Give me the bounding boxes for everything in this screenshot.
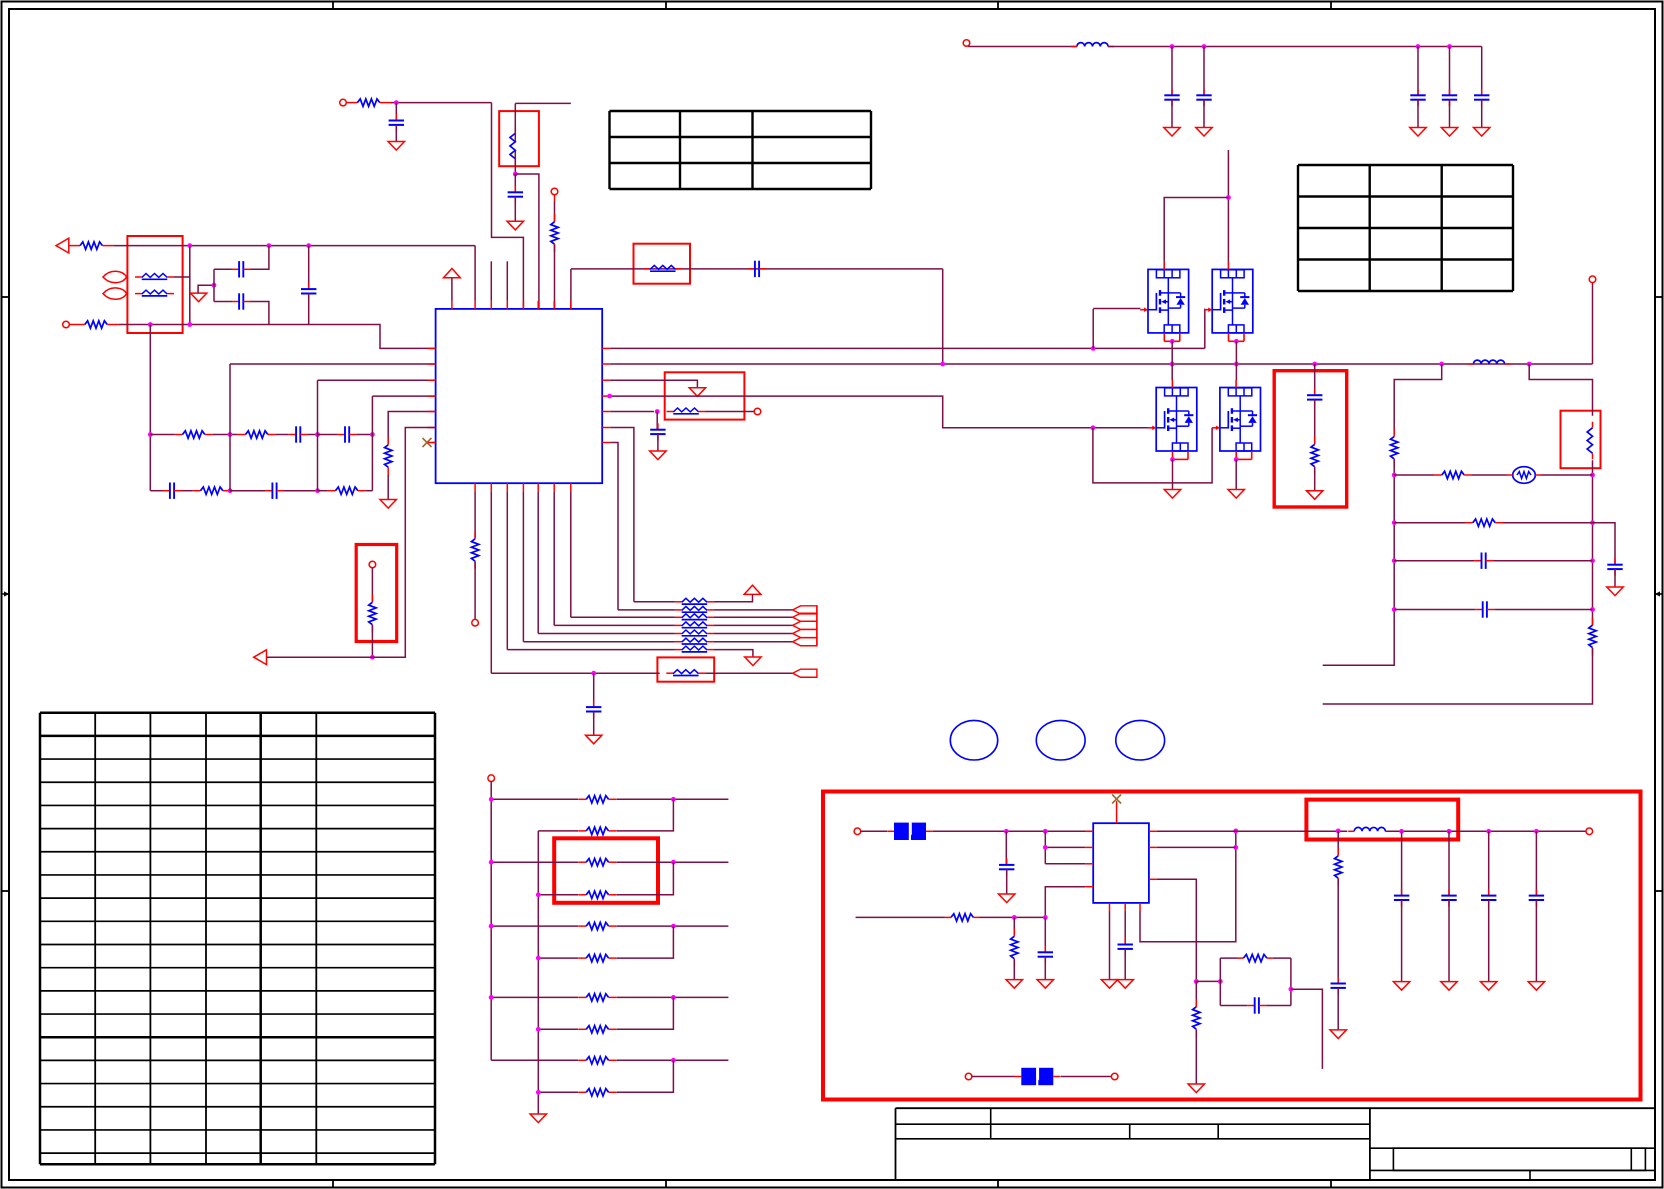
wire to C27: [1044, 917, 1046, 952]
wire C28 gnd: [1124, 949, 1126, 980]
junction: [671, 924, 676, 929]
resistor R22: [578, 859, 616, 866]
wire C27 gnd: [1044, 957, 1046, 980]
wire ladder row: [491, 1059, 578, 1061]
resistor R12: [1391, 429, 1398, 467]
wire mosfet feed left: [1164, 198, 1228, 262]
ground Q4: [1228, 490, 1244, 499]
junction: [940, 362, 945, 367]
wire out b: [1385, 830, 1586, 832]
junction: [489, 995, 494, 1000]
wire bead row: [538, 633, 675, 635]
IC U1 pin stubs: [428, 301, 611, 491]
wire net top: [114, 245, 475, 247]
wire R lead b: [980, 916, 1046, 918]
resistor R6: [328, 487, 366, 494]
resistor R13: [1434, 471, 1472, 478]
ferrite bead FB6: [675, 606, 714, 612]
junction: [1399, 829, 1404, 834]
title block: [896, 1108, 1656, 1180]
wire box5 c: [1314, 467, 1316, 491]
ferrite bead FB5: [675, 598, 714, 604]
wire row1 pwr: [714, 594, 753, 601]
capacitor C1: [232, 261, 251, 277]
junction: [1004, 829, 1009, 834]
wire pin538 down: [537, 491, 539, 633]
wire Q4 gnd: [1235, 459, 1237, 489]
wire ladder pair: [617, 1060, 674, 1092]
ground C11: [650, 451, 666, 460]
junction: [671, 860, 676, 865]
junction: [1312, 362, 1317, 367]
wire rowB a: [150, 490, 162, 492]
wire row475 c: [1541, 474, 1593, 476]
net tag row: [793, 629, 817, 637]
no-connect U2: [1112, 795, 1121, 804]
pin dcdc out: [1586, 828, 1593, 835]
wire to C9: [514, 174, 516, 192]
junction: [1534, 829, 1539, 834]
wire U2 gnd1: [1109, 911, 1111, 980]
wire cap mid: [213, 269, 215, 301]
junction: [1590, 558, 1595, 563]
capacitor C18: [1331, 977, 1346, 994]
resistor R2: [69, 321, 119, 328]
junction: [228, 488, 233, 493]
capacitor C12: [586, 701, 601, 718]
wire C2 to bottom: [251, 302, 269, 325]
highlight box top transformer: [499, 111, 539, 166]
wire bead1 to bottom: [174, 277, 190, 325]
junction: [1590, 473, 1595, 478]
wire pin554 down: [553, 491, 555, 625]
wire net bottom to IC: [119, 325, 436, 349]
wire fuse lead a: [861, 830, 888, 832]
wire pin491 stub: [490, 261, 492, 301]
wire ladder pair: [617, 997, 674, 1029]
net tag rail: [816, 605, 818, 646]
wire bead row: [571, 616, 675, 618]
resistor R30: [945, 914, 980, 921]
net tag row: [793, 606, 817, 614]
wire gate1 up: [1092, 309, 1094, 349]
ground U2a: [1101, 980, 1117, 989]
pin dcdc in: [854, 828, 861, 835]
wire ladder pair: [617, 926, 674, 958]
junction: [1233, 829, 1238, 834]
capacitor C11: [650, 423, 665, 440]
junction: [1392, 558, 1397, 563]
junction: [394, 100, 399, 105]
ground R17: [1188, 1084, 1204, 1093]
ground U2b: [1117, 980, 1133, 989]
wire Q1 to bus: [1171, 341, 1173, 380]
junction: [1527, 362, 1532, 367]
junction: [315, 432, 320, 437]
junction: [1091, 425, 1096, 430]
wire U2 pin2: [1045, 846, 1085, 848]
junction: [1202, 44, 1207, 49]
wire pin523 down: [522, 491, 524, 642]
wire row tag: [714, 633, 793, 635]
capacitor C3: [301, 283, 316, 300]
wire row522 b: [1503, 522, 1593, 524]
junction: [228, 432, 233, 437]
wire to ground jog: [198, 285, 214, 293]
pin R10 end: [472, 619, 479, 626]
IC U2: [1093, 823, 1149, 903]
junction: [370, 655, 375, 660]
junction: [1416, 44, 1421, 49]
net arrow input: [56, 238, 69, 253]
pin power in: [963, 40, 970, 47]
wire cap gnd: [1417, 100, 1419, 128]
wire box5 a: [1314, 364, 1316, 395]
wire row8 a: [491, 672, 659, 674]
wire rowB c: [229, 490, 232, 492]
junction: [1590, 607, 1595, 612]
inductor L1: [1071, 43, 1114, 47]
ground near bead2: [190, 293, 206, 302]
wire gate2: [1203, 308, 1205, 310]
marker ellipse 1: [950, 720, 997, 760]
wire to C11: [656, 412, 658, 430]
ferrite bead FB2: [135, 290, 174, 296]
ferrite bead FB8: [675, 622, 714, 628]
wire rowA b: [213, 434, 238, 436]
resistor R9: [551, 214, 558, 252]
wire to C3: [308, 246, 310, 290]
wire cap down: [1449, 47, 1451, 96]
wire pin442 down: [610, 443, 618, 610]
wire nc stub: [432, 442, 436, 444]
marker ellipse 3: [1116, 720, 1165, 760]
pin fuse2 b: [1111, 1073, 1118, 1080]
junction: [306, 243, 311, 248]
wire pin364: [230, 363, 436, 365]
resistor R28: [578, 1057, 616, 1064]
wire C12 gnd: [593, 712, 595, 736]
highlight box ladder pair: [554, 838, 658, 903]
resistor R21: [578, 827, 616, 834]
junction: [1234, 457, 1239, 462]
resistor R4: [238, 431, 276, 438]
junction: [212, 283, 217, 288]
pin ladder top: [488, 775, 495, 782]
wire pin412: [388, 412, 435, 444]
transformer winding W1: [510, 127, 515, 165]
resistor R29: [578, 1089, 616, 1096]
wire power b: [1108, 46, 1482, 48]
junction: [187, 243, 192, 248]
inductor L3: [1348, 827, 1391, 831]
wire R31 gnd: [1013, 959, 1015, 979]
wire to R12: [1394, 364, 1442, 436]
net tag row: [793, 613, 817, 621]
junction: [1392, 520, 1397, 525]
wire ladder row out: [617, 1059, 729, 1061]
junction: [148, 322, 153, 327]
wire ladder pair: [617, 862, 674, 895]
pin right top: [1589, 276, 1596, 283]
wire fuse2 lead a: [972, 1076, 1015, 1078]
wire snub top b: [1273, 957, 1291, 959]
wire row475 a: [1394, 474, 1434, 476]
wire to R9: [554, 202, 556, 222]
table top-right: [1298, 165, 1513, 291]
resistor R8: [346, 99, 391, 106]
junction: [1043, 915, 1048, 920]
ground C9: [507, 221, 523, 230]
wire U2 pin2 out: [1157, 846, 1236, 848]
wire rowA d: [308, 434, 318, 436]
wire to C2: [214, 301, 232, 303]
capacitor C15: [1474, 553, 1493, 569]
ground C24: [1474, 128, 1490, 137]
junction: [489, 924, 494, 929]
wire rowB f: [366, 490, 373, 492]
resistor R3: [175, 431, 213, 438]
wire cap gnd: [1449, 100, 1451, 128]
capacitor C29: [1394, 889, 1409, 906]
wire to C12: [593, 673, 595, 707]
ground C21: [1196, 128, 1212, 137]
junction: [370, 432, 375, 437]
wire fuse2 lead b: [1061, 1076, 1112, 1078]
wire ladder row: [538, 1028, 578, 1030]
wire rowB e: [284, 490, 318, 492]
wire C3 down: [308, 294, 310, 325]
capacitor C32: [1529, 889, 1544, 906]
wire to C1: [214, 268, 232, 270]
wire rowA e: [318, 434, 338, 436]
capacitor C23: [1442, 89, 1457, 106]
wire ladder row out: [617, 861, 729, 863]
wire to pin right: [1592, 282, 1594, 364]
wire bead row: [554, 624, 675, 626]
wire R18 down: [1337, 879, 1339, 984]
wire sense a: [267, 656, 373, 658]
wire ladder row: [538, 830, 578, 832]
wire to R31: [1013, 917, 1015, 935]
wire pwr to IC: [451, 278, 453, 301]
junction: [187, 322, 192, 327]
junction: [1439, 362, 1444, 367]
junction: [655, 409, 660, 414]
wire pin380: [318, 379, 436, 381]
junction: [607, 394, 612, 399]
ground box5: [1307, 491, 1323, 500]
wire snub bot a: [1220, 1005, 1247, 1007]
wire Q3 gnd: [1172, 459, 1174, 489]
wire bead row: [523, 641, 675, 643]
capacitor C22: [1410, 89, 1425, 106]
wire dcdc a: [933, 830, 1093, 832]
wire bead1 up: [189, 246, 191, 277]
junction: [1590, 520, 1595, 525]
wire rail 1592: [1592, 460, 1594, 625]
ferrite bead FB4: [667, 408, 706, 414]
pin top-left: [340, 99, 347, 106]
ground pin380: [689, 388, 705, 397]
wire pin412a: [610, 411, 654, 413]
wire row tag: [714, 624, 793, 626]
wire ladder row: [491, 996, 578, 998]
wire cap down: [1171, 47, 1173, 96]
wire cap gnd: [1203, 100, 1205, 128]
power symbol IC: [444, 269, 461, 278]
wire R15 down: [1323, 648, 1593, 704]
wire bus364: [610, 363, 1592, 365]
capacitor C28: [1118, 938, 1133, 955]
transformer winding W2: [1587, 422, 1592, 460]
wire bead row: [634, 601, 675, 603]
wire W1 top: [514, 103, 516, 141]
wire ladder bus2: [537, 831, 539, 1114]
wire rowA f: [357, 434, 373, 436]
wire row609 b: [1494, 609, 1592, 611]
wire sense to IC: [372, 428, 435, 658]
wire net269 down: [942, 269, 944, 364]
ground C27: [1037, 980, 1053, 989]
wire cap down: [1481, 47, 1483, 96]
pin fuse2 a: [965, 1073, 972, 1080]
wire fb bottom: [1140, 831, 1236, 942]
resistor R1: [69, 242, 114, 249]
junction: [1447, 44, 1452, 49]
wire R10 down: [474, 562, 476, 620]
wire row8 b: [705, 672, 792, 674]
inductor L2: [1467, 360, 1510, 364]
wire row522 a: [1394, 522, 1465, 524]
wire row609 a: [1394, 609, 1475, 611]
wire to R18: [1337, 831, 1339, 855]
junction: [1289, 987, 1294, 992]
wire snub in: [1196, 980, 1220, 982]
resistor R24: [578, 922, 616, 929]
wire snub left: [1219, 958, 1221, 1005]
wire ladder row out: [617, 996, 729, 998]
wire snub bot b: [1266, 1005, 1291, 1007]
resistor R17: [1193, 999, 1200, 1037]
junction: [1170, 457, 1175, 462]
junction: [1233, 845, 1238, 850]
highlight box secondary winding: [1561, 411, 1601, 469]
junction: [489, 924, 494, 929]
wire snub out: [1291, 989, 1323, 1069]
wire snub right: [1290, 958, 1292, 1005]
wire ladder row: [538, 894, 578, 896]
ground C23: [1441, 128, 1457, 137]
wire mosfet feed: [1227, 150, 1229, 262]
ground row7: [745, 657, 761, 666]
connector pin P2: [103, 288, 127, 299]
transistor Q4: [1212, 380, 1260, 459]
wire to W2: [1529, 364, 1592, 416]
wire pin475 down: [474, 491, 476, 538]
junction: [1234, 339, 1239, 344]
junction: [1226, 195, 1231, 200]
wire row560 a: [1394, 560, 1474, 562]
wire row tag: [714, 641, 793, 643]
wire pin571 up: [570, 269, 572, 309]
wire cap gnd: [1481, 100, 1483, 128]
wire R9 to IC: [554, 245, 556, 309]
wire rail 317: [317, 380, 319, 491]
ground C20: [1164, 128, 1180, 137]
wire gate2 up: [1204, 309, 1206, 349]
wire pin571 down: [570, 491, 572, 617]
ferrite bead FB9: [675, 630, 714, 636]
lamp LP1: [1507, 467, 1541, 484]
capacitor C26: [999, 858, 1014, 875]
wire W1 label stub: [515, 102, 571, 104]
wire cap down: [1203, 47, 1205, 96]
wire power a: [969, 46, 1077, 47]
wire rowA c: [276, 434, 289, 436]
capacitor C20: [1164, 89, 1179, 106]
wire to R19: [371, 568, 373, 602]
capacitor C25: [1307, 389, 1322, 406]
ground C26: [999, 894, 1015, 903]
junction: [1091, 346, 1096, 351]
capacitor C14: [1607, 558, 1622, 575]
wire C11 gnd: [657, 434, 659, 451]
capacitor C27: [1038, 946, 1053, 963]
wire ladder row: [491, 798, 578, 800]
wire U2 tie: [1044, 831, 1046, 864]
wire W1 bottom: [514, 151, 516, 174]
junction: [1392, 473, 1397, 478]
highlight box output inductor: [1306, 800, 1458, 840]
wire rowB b: [182, 490, 193, 492]
ferrite bead FB3: [643, 265, 682, 271]
resistor R25: [578, 954, 616, 961]
capacitor C9: [508, 186, 523, 203]
wire pin396 gates: [610, 396, 1148, 428]
pin FB4 out: [754, 408, 761, 415]
wire ladder row: [491, 861, 578, 863]
highlight box RC snubber right: [1274, 371, 1347, 507]
wire rowB d: [230, 490, 265, 492]
capacitor C2: [232, 293, 251, 309]
wire C9 to gnd: [514, 197, 516, 222]
ground C30: [1441, 982, 1457, 991]
connector pin P1: [103, 271, 127, 282]
junction: [1043, 829, 1048, 834]
wire outcap b: [1401, 900, 1403, 982]
wire C8 to gnd: [395, 125, 397, 142]
junction: [671, 1058, 676, 1063]
capacitor C24: [1474, 89, 1489, 106]
capacitor C16: [1475, 601, 1494, 617]
ground C32: [1528, 982, 1544, 991]
wire ladder row: [491, 925, 578, 927]
junction: [536, 1027, 541, 1032]
net tag row: [793, 621, 817, 629]
junction: [315, 488, 320, 493]
net arrow sense: [254, 650, 267, 665]
pin input: [63, 321, 70, 328]
wire C18 gnd: [1337, 988, 1339, 1030]
junction: [536, 1090, 541, 1095]
ground C8: [388, 142, 404, 151]
wire pin507 down: [506, 491, 508, 649]
resistor R11: [1311, 437, 1318, 475]
ground R7: [380, 500, 396, 509]
wire pin491 down: [490, 491, 492, 673]
transistor Q3: [1148, 380, 1196, 459]
